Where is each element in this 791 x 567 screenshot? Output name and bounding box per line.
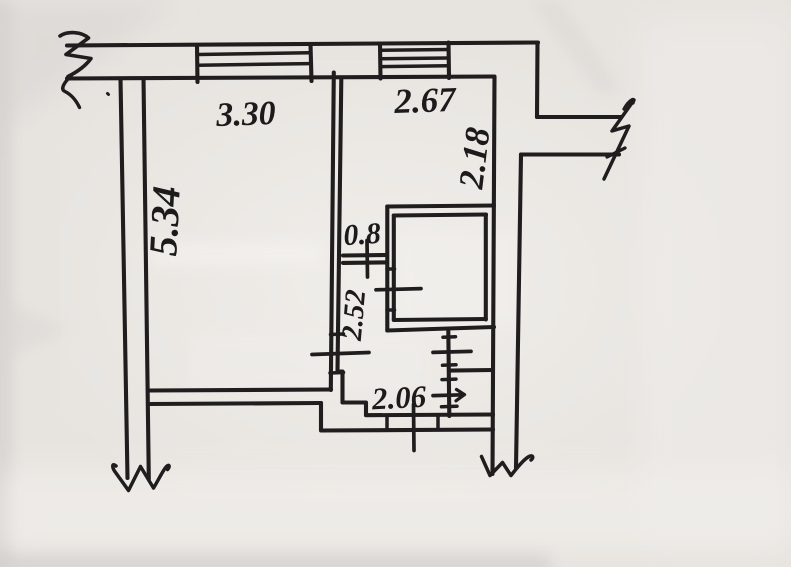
wall left outer line (121, 79, 128, 479)
ladder long rung e with arrow (433, 393, 463, 398)
break zigzag right dash (607, 148, 625, 157)
bathroom inner right wall (484, 215, 488, 320)
wall extension top line (537, 115, 621, 119)
window W2 pane line 3 (381, 64, 448, 68)
door mark cross 0.8 (365, 241, 369, 278)
door leaf D2 (2.06) (412, 405, 416, 451)
arrow + squiggle bottom-right (482, 456, 533, 476)
ladder long rung b (433, 351, 471, 352)
paper crease bottom-left (0, 300, 70, 360)
wall right inner line (493, 77, 495, 475)
window W1 right jamb (311, 44, 312, 81)
window W1 pane line 1 (198, 53, 309, 55)
window W2 pane line 2 (381, 56, 448, 60)
partition bottom jog (338, 372, 367, 416)
door leaf D1 (2.52) (312, 353, 369, 355)
svg-text:2.18: 2.18 (451, 125, 497, 192)
paper light patch bathroom (398, 232, 518, 327)
bathroom inner left wall (392, 216, 396, 320)
room bottom wall top line (149, 390, 331, 391)
break zigzag right top hook (624, 99, 634, 109)
svg-text:2.67: 2.67 (393, 80, 458, 121)
ladder rung a (443, 335, 456, 339)
paper light streak left-middle (150, 243, 320, 265)
wall extension bottom line (521, 152, 619, 156)
bathroom inner bottom wall (394, 319, 486, 320)
window W2 right jamb (446, 43, 451, 79)
wall left inner line (144, 79, 149, 480)
wall top inner line (67, 77, 493, 79)
ladder rung f (442, 404, 458, 408)
paper bottom edge shadow (0, 552, 550, 567)
paper top-left corner shadow (0, 0, 180, 130)
svg-text:2.52: 2.52 (336, 288, 372, 342)
svg-text:2.06: 2.06 (370, 379, 428, 417)
room bottom wall bottom line (149, 403, 321, 404)
svg-text:5.34: 5.34 (140, 185, 189, 257)
door leaf D3 (bathroom) (376, 289, 421, 290)
bathroom top inner wall (394, 215, 486, 216)
window W1 left jamb (195, 45, 200, 82)
partition wall right line (338, 79, 342, 370)
bathroom door jamb rung upper (387, 267, 395, 271)
corridor bottom tick 2 (436, 415, 440, 430)
paper light patch bottom-center (190, 335, 420, 390)
ink dot (108, 94, 109, 95)
window W1 pane line 2 (198, 64, 309, 66)
ladder rung c (443, 363, 457, 367)
svg-text:0.8: 0.8 (342, 217, 382, 253)
bottom wall step (319, 403, 323, 430)
bathroom top outer wall (387, 206, 494, 207)
break zigzag right (604, 100, 634, 179)
paper left edge shadow (0, 0, 12, 567)
arrow + squiggle bottom-left (113, 465, 169, 491)
partition wall left line (331, 73, 334, 391)
svg-text:3.30: 3.30 (215, 95, 277, 134)
bathroom door jamb rung lower (387, 308, 395, 312)
paper crease top-right (530, 0, 620, 95)
window W2 pane line 1 (381, 48, 448, 52)
bathroom outer bottom wall (387, 327, 494, 331)
wall top outer line (67, 43, 538, 46)
paper right side light band (640, 20, 790, 540)
partition door jamb rung lower (330, 371, 344, 375)
break squiggle top-left (60, 33, 91, 77)
wall top-right corner vertical (535, 43, 540, 118)
corridor bottom outer line (321, 430, 493, 431)
ladder rung d (442, 377, 456, 381)
wall 0.8 lower line (343, 260, 386, 265)
corridor bottom tick 1 (385, 416, 389, 430)
ladder arrow head (456, 390, 465, 401)
window W2 left jamb (378, 44, 383, 79)
bathroom outer left wall (385, 207, 389, 331)
entry door ladder vertical (448, 330, 449, 416)
corridor bottom inner line (366, 412, 493, 417)
connector to right wall (449, 368, 493, 373)
partition door jamb rung upper (331, 332, 344, 336)
wall right outer line (516, 155, 521, 469)
paper center highlight (60, 60, 720, 500)
wall 0.8 upper line (343, 253, 386, 258)
break squiggle top-left tail (63, 76, 80, 108)
paper bottom light band (0, 470, 791, 550)
